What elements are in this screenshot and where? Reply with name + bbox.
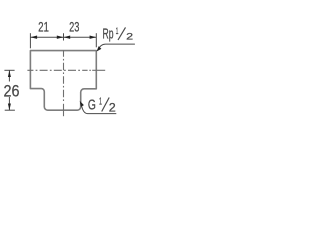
svg-text:1: 1 <box>116 26 119 37</box>
svg-text:23: 23 <box>69 18 79 34</box>
label G 1/2: underline leader <box>81 103 117 114</box>
arrowhead down (26) <box>8 104 11 111</box>
label G 1/2: leader arrowhead <box>80 101 84 107</box>
left dimension 26: line upper part <box>8 70 10 81</box>
label G 1/2: fraction slash <box>102 98 110 112</box>
svg-text:G: G <box>88 97 96 114</box>
horizontal centerline dot <box>89 69 91 71</box>
top dimension: extension line right <box>95 33 97 47</box>
left dimension 26: top extension <box>4 69 14 71</box>
vertical centerline <box>63 50 65 102</box>
horizontal centerline <box>27 69 87 71</box>
label Rp 1/2: underline leader <box>98 44 135 50</box>
left dimension 26: bottom extension <box>5 109 15 111</box>
svg-text:26: 26 <box>4 81 20 100</box>
vertical centerline lower dash <box>63 104 65 116</box>
horizontal centerline right dash <box>92 69 105 71</box>
top dimension line <box>30 36 96 38</box>
top dimension: center tick <box>63 33 65 40</box>
arrowhead left of 23 <box>64 36 71 39</box>
left dimension 26: line lower part <box>8 97 10 110</box>
top dimension: extension line left <box>29 33 31 48</box>
svg-text:Rp: Rp <box>103 27 114 43</box>
arrowhead right of 21 <box>57 36 64 39</box>
arrowhead up (26) <box>8 70 11 77</box>
arrowhead right (23) <box>90 36 97 39</box>
fitting body outline <box>30 51 96 111</box>
label Rp 1/2: fraction slash <box>118 27 126 40</box>
svg-text:21: 21 <box>38 18 49 34</box>
svg-text:2: 2 <box>126 32 133 43</box>
svg-text:1: 1 <box>99 97 102 108</box>
label Rp 1/2: leader arrowhead <box>97 46 102 51</box>
arrowhead left (21) <box>30 36 37 39</box>
svg-text:2: 2 <box>109 103 116 115</box>
